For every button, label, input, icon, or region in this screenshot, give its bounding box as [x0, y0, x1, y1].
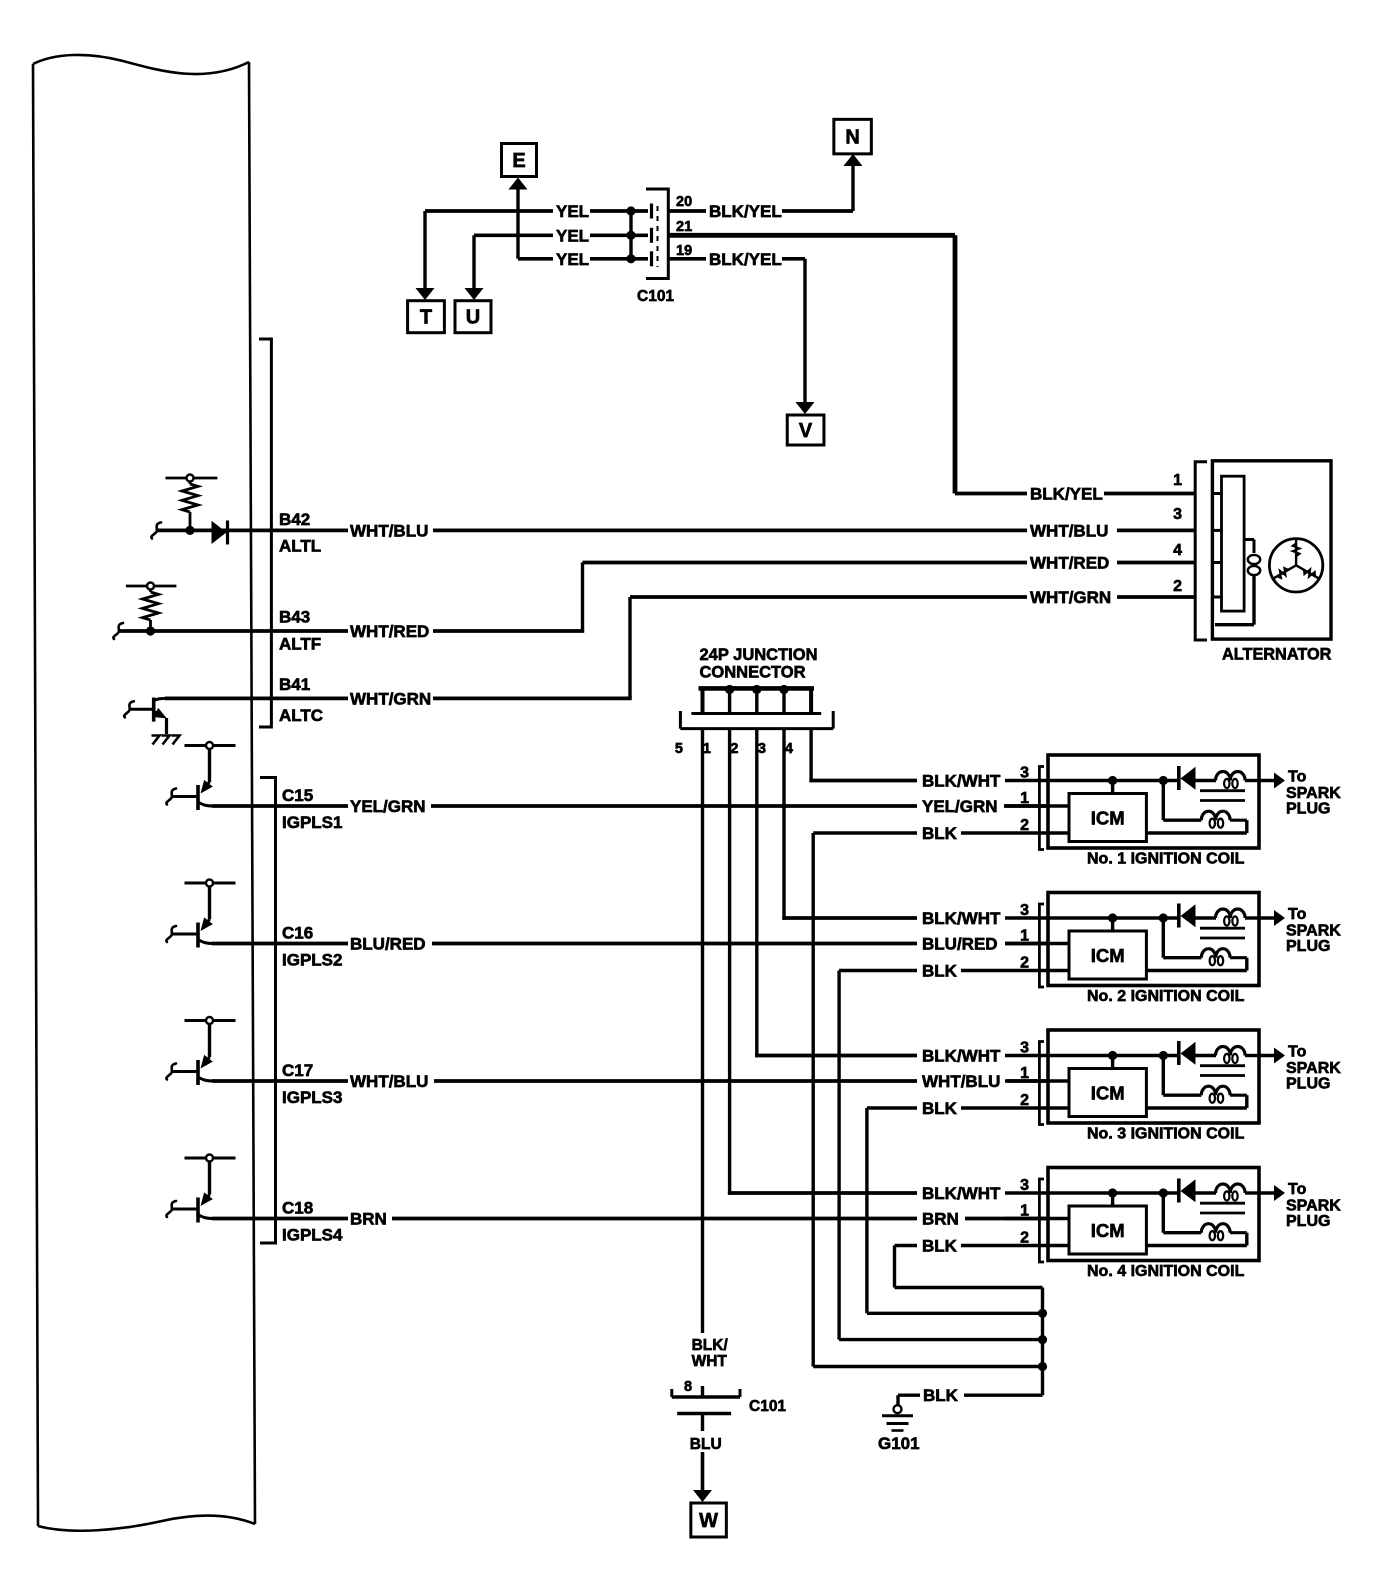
svg-text:SPARK: SPARK	[1286, 1198, 1341, 1215]
svg-text:BLK: BLK	[922, 962, 958, 981]
svg-text:3: 3	[758, 741, 766, 757]
svg-text:V: V	[799, 420, 813, 442]
svg-text:1: 1	[1173, 472, 1182, 489]
svg-text:2: 2	[730, 741, 738, 757]
svg-text:N: N	[845, 127, 859, 149]
svg-text:PLUG: PLUG	[1286, 938, 1330, 955]
svg-text:20: 20	[676, 194, 692, 210]
svg-text:ALTC: ALTC	[279, 706, 323, 725]
svg-text:ICM: ICM	[1091, 1083, 1125, 1104]
svg-text:BLK/WHT: BLK/WHT	[922, 909, 1001, 928]
svg-text:4: 4	[785, 741, 793, 757]
svg-text:8: 8	[684, 1379, 692, 1395]
svg-text:W: W	[699, 1510, 718, 1532]
svg-text:WHT/BLU: WHT/BLU	[922, 1072, 1000, 1091]
svg-text:3: 3	[1020, 765, 1029, 782]
svg-text:B41: B41	[279, 675, 310, 694]
svg-text:BLK: BLK	[922, 824, 958, 843]
svg-text:E: E	[512, 150, 525, 172]
svg-text:No. 3 IGNITION COIL: No. 3 IGNITION COIL	[1087, 1126, 1245, 1143]
svg-text:BRN: BRN	[922, 1210, 959, 1229]
svg-text:C18: C18	[282, 1199, 313, 1218]
svg-text:WHT/GRN: WHT/GRN	[350, 689, 431, 708]
svg-text:BLK: BLK	[922, 1237, 958, 1256]
svg-text:WHT/BLU: WHT/BLU	[1030, 521, 1108, 540]
svg-text:3: 3	[1173, 506, 1182, 523]
svg-text:C101: C101	[749, 1398, 786, 1415]
svg-text:U: U	[466, 307, 480, 329]
svg-text:SPARK: SPARK	[1286, 1060, 1341, 1077]
svg-text:YEL: YEL	[556, 226, 589, 245]
svg-text:C101: C101	[637, 288, 674, 305]
svg-text:No. 4 IGNITION COIL: No. 4 IGNITION COIL	[1087, 1263, 1245, 1280]
svg-text:3: 3	[1020, 1040, 1029, 1057]
svg-text:IGPLS4: IGPLS4	[282, 1226, 343, 1245]
svg-text:BLK: BLK	[922, 1099, 958, 1118]
svg-text:BLK/YEL: BLK/YEL	[1030, 485, 1103, 504]
svg-text:No. 2 IGNITION COIL: No. 2 IGNITION COIL	[1087, 988, 1245, 1005]
svg-text:ICM: ICM	[1091, 1220, 1125, 1241]
svg-text:BLK/YEL: BLK/YEL	[709, 202, 782, 221]
svg-text:To: To	[1288, 1181, 1307, 1198]
svg-text:G101: G101	[878, 1434, 920, 1453]
svg-text:PLUG: PLUG	[1286, 801, 1330, 818]
svg-text:5: 5	[675, 741, 683, 757]
svg-text:ICM: ICM	[1091, 808, 1125, 829]
svg-text:4: 4	[1173, 542, 1182, 559]
svg-text:C17: C17	[282, 1061, 313, 1080]
svg-text:BLU/RED: BLU/RED	[922, 935, 998, 954]
svg-text:No. 1 IGNITION COIL: No. 1 IGNITION COIL	[1087, 851, 1245, 868]
svg-text:WHT/BLU: WHT/BLU	[350, 1072, 428, 1091]
svg-text:IGPLS3: IGPLS3	[282, 1088, 342, 1107]
svg-text:YEL: YEL	[556, 202, 589, 221]
svg-text:BLU/RED: BLU/RED	[350, 935, 426, 954]
svg-text:24P JUNCTION: 24P JUNCTION	[700, 646, 818, 664]
svg-text:PLUG: PLUG	[1286, 1213, 1330, 1230]
svg-text:ALTL: ALTL	[279, 537, 321, 556]
svg-text:ALTF: ALTF	[279, 635, 321, 654]
svg-text:SPARK: SPARK	[1286, 923, 1341, 940]
svg-text:SPARK: SPARK	[1286, 785, 1341, 802]
svg-text:PLUG: PLUG	[1286, 1076, 1330, 1093]
svg-text:To: To	[1288, 769, 1307, 786]
svg-text:BRN: BRN	[350, 1210, 387, 1229]
svg-text:IGPLS2: IGPLS2	[282, 951, 342, 970]
svg-text:19: 19	[676, 243, 692, 259]
svg-text:YEL/GRN: YEL/GRN	[350, 797, 426, 816]
svg-text:21: 21	[676, 219, 692, 235]
svg-text:3: 3	[1020, 1177, 1029, 1194]
svg-text:ICM: ICM	[1091, 945, 1125, 966]
svg-text:C16: C16	[282, 924, 313, 943]
svg-text:2: 2	[1173, 578, 1182, 595]
svg-text:B43: B43	[279, 608, 310, 627]
svg-text:To: To	[1288, 906, 1307, 923]
svg-text:3: 3	[1020, 902, 1029, 919]
svg-text:BLU: BLU	[690, 1436, 722, 1453]
svg-text:YEL/GRN: YEL/GRN	[922, 797, 998, 816]
svg-text:C15: C15	[282, 786, 313, 805]
svg-text:BLK: BLK	[923, 1386, 959, 1405]
svg-text:BLK/WHT: BLK/WHT	[922, 1184, 1001, 1203]
svg-text:WHT/GRN: WHT/GRN	[1030, 588, 1111, 607]
svg-text:WHT/RED: WHT/RED	[350, 622, 429, 641]
svg-text:WHT/BLU: WHT/BLU	[350, 521, 428, 540]
svg-text:T: T	[420, 307, 432, 329]
svg-text:B42: B42	[279, 510, 310, 529]
svg-text:To: To	[1288, 1044, 1307, 1061]
svg-text:ALTERNATOR: ALTERNATOR	[1222, 646, 1332, 664]
svg-text:WHT: WHT	[692, 1353, 728, 1370]
svg-text:BLK/WHT: BLK/WHT	[922, 772, 1001, 791]
svg-text:BLK/: BLK/	[692, 1337, 729, 1354]
svg-text:CONNECTOR: CONNECTOR	[700, 664, 806, 682]
svg-text:IGPLS1: IGPLS1	[282, 813, 342, 832]
svg-text:WHT/RED: WHT/RED	[1030, 554, 1109, 573]
svg-text:YEL: YEL	[556, 250, 589, 269]
svg-text:BLK/YEL: BLK/YEL	[709, 250, 782, 269]
svg-text:BLK/WHT: BLK/WHT	[922, 1047, 1001, 1066]
